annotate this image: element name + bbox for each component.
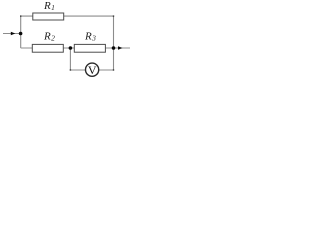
svg-text:V: V [88,63,97,77]
